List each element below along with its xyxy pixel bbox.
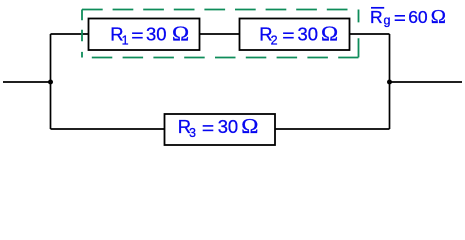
- svg-text:Ω: Ω: [321, 21, 338, 45]
- svg-text:R: R: [370, 7, 383, 27]
- dashed group box Rg top edge: [82, 9, 357, 11]
- resistor R3: [165, 114, 276, 145]
- wire left vertical branch: [50, 34, 52, 129]
- svg-text:30: 30: [146, 23, 166, 44]
- svg-text:3: 3: [189, 126, 196, 140]
- dashed group box Rg left edge: [81, 10, 83, 58]
- dashed group box Rg bottom edge: [82, 57, 359, 59]
- wire between R1 and R2: [200, 33, 241, 35]
- svg-text:Ω: Ω: [172, 21, 189, 45]
- dashed group box Rg right edge: [358, 10, 360, 58]
- wire bottom-left horizontal to R3: [51, 128, 166, 130]
- wire right vertical branch: [389, 34, 391, 129]
- junction node right: [387, 80, 392, 85]
- svg-text:2: 2: [271, 34, 278, 48]
- resistor R1: [89, 19, 200, 51]
- wire top-left horizontal to R1: [51, 33, 90, 35]
- wire right terminal: [390, 81, 463, 83]
- wire from R2 to right corner: [349, 33, 390, 35]
- wire bottom-right horizontal from R3: [275, 128, 390, 130]
- svg-text:Ω: Ω: [431, 6, 446, 27]
- junction node left: [48, 80, 53, 85]
- svg-text:Ω: Ω: [241, 114, 258, 138]
- svg-text:1: 1: [122, 34, 129, 48]
- svg-text:g: g: [384, 13, 391, 27]
- svg-text:30: 30: [218, 116, 238, 137]
- label Rg overbar: [371, 7, 384, 9]
- svg-text:30: 30: [298, 23, 318, 44]
- wire left terminal: [3, 81, 51, 83]
- svg-text:60: 60: [408, 7, 428, 27]
- resistor R2: [240, 19, 350, 51]
